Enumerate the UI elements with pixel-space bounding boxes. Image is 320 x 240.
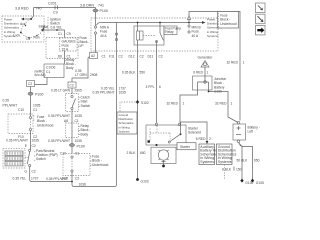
svg-text:0.35 PPL/WHT: 0.35 PPL/WHT (48, 139, 70, 143)
svg-text:0.35 YEL: 0.35 YEL (12, 177, 26, 181)
svg-text:Systems: Systems (218, 160, 232, 164)
svg-text:w/o A6): w/o A6) (35, 73, 46, 77)
svg-text:Lock: Lock (13, 34, 20, 38)
svg-text:C1: C1 (58, 32, 62, 36)
svg-text:50 BLK: 50 BLK (237, 159, 249, 163)
svg-text:3.8 RED: 3.8 RED (15, 7, 29, 11)
svg-text:C1: C1 (102, 55, 106, 59)
svg-text:0.35 PPL/WHT: 0.35 PPL/WHT (46, 177, 68, 181)
svg-text:Systems: Systems (119, 129, 131, 133)
svg-text:650: 650 (140, 151, 146, 155)
svg-text:0.35 BLK: 0.35 BLK (122, 71, 136, 75)
svg-text:740: 740 (36, 7, 42, 11)
svg-text:Solenoid: Solenoid (188, 131, 201, 135)
svg-text:D12: D12 (129, 55, 135, 59)
svg-text:550: 550 (140, 71, 146, 75)
svg-text:C2: C2 (70, 84, 74, 88)
svg-text:2: 2 (209, 137, 211, 141)
svg-text:P100: P100 (35, 93, 43, 97)
svg-text:P100: P100 (77, 144, 85, 148)
svg-text:Switch: Switch (81, 104, 91, 108)
svg-text:1036: 1036 (79, 183, 87, 187)
svg-text:C1/D6: C1/D6 (46, 66, 56, 70)
svg-text:3.8 ORN: 3.8 ORN (80, 4, 94, 8)
svg-text:Systems: Systems (200, 160, 214, 164)
svg-text:32 RED: 32 RED (166, 102, 178, 106)
svg-text:1737: 1737 (31, 177, 39, 181)
svg-text:1035: 1035 (75, 114, 83, 118)
svg-text:1: 1 (243, 61, 245, 65)
svg-text:Starter: Starter (180, 145, 191, 149)
svg-text:A2: A2 (91, 54, 95, 58)
svg-text:Off: Off (26, 37, 30, 41)
svg-text:1: 1 (231, 102, 233, 106)
svg-text:P100: P100 (100, 9, 108, 13)
svg-text:Acc: Acc (20, 22, 26, 26)
svg-text:C201: C201 (48, 2, 57, 6)
svg-text:LT GRN: LT GRN (75, 73, 87, 77)
svg-text:40 A: 40 A (192, 34, 199, 38)
svg-text:32 RED: 32 RED (215, 102, 227, 106)
svg-text:Underhood: Underhood (37, 123, 53, 127)
svg-text:Bat: Bat (43, 25, 48, 29)
svg-text:PPL/WHT: PPL/WHT (3, 104, 18, 108)
svg-text:C2: C2 (32, 169, 36, 173)
svg-text:Body: Body (81, 132, 89, 136)
svg-text:150: 150 (236, 168, 242, 172)
svg-text:C10: C10 (18, 108, 24, 112)
svg-text:0.35: 0.35 (3, 99, 10, 103)
svg-text:Switch: Switch (36, 157, 46, 161)
svg-text:C2: C2 (140, 55, 144, 59)
svg-text:40 A: 40 A (100, 34, 107, 38)
svg-text:F11: F11 (109, 55, 115, 59)
svg-text:C9: C9 (53, 11, 58, 15)
svg-text:0.35 LT GRN: 0.35 LT GRN (51, 89, 71, 93)
svg-text:Underhood: Underhood (92, 163, 108, 167)
svg-text:3 PPL: 3 PPL (146, 85, 155, 89)
svg-text:8 BLK: 8 BLK (222, 168, 232, 172)
svg-text:741: 741 (98, 4, 104, 8)
svg-text:C1: C1 (33, 108, 37, 112)
svg-text:C2: C2 (119, 55, 123, 59)
svg-text:C1: C1 (75, 119, 79, 123)
svg-text:2908: 2908 (90, 73, 98, 77)
svg-text:Relay: Relay (165, 30, 174, 34)
svg-text:0.35 PPL/WHT: 0.35 PPL/WHT (93, 91, 115, 95)
svg-text:C2: C2 (32, 144, 36, 148)
svg-text:C2: C2 (159, 55, 163, 59)
svg-text:C2: C2 (75, 177, 79, 181)
svg-text:Underhood: Underhood (220, 22, 236, 26)
svg-text:15 A: 15 A (62, 48, 69, 52)
svg-text:Body: Body (66, 66, 74, 70)
svg-text:G100: G100 (245, 181, 253, 185)
svg-text:D11: D11 (148, 55, 154, 59)
svg-text:6 RED: 6 RED (193, 71, 203, 75)
svg-text:1035: 1035 (32, 138, 40, 142)
svg-text:2 BLK: 2 BLK (127, 151, 137, 155)
svg-text:6: 6 (159, 85, 161, 89)
svg-text:0.8 YEL: 0.8 YEL (51, 26, 63, 30)
svg-text:1: 1 (207, 71, 209, 75)
svg-text:Systems: Systems (207, 34, 219, 38)
svg-text:1035: 1035 (119, 91, 127, 95)
svg-text:S102: S102 (141, 101, 149, 105)
svg-text:Generator: Generator (198, 56, 214, 60)
svg-text:C2: C2 (28, 82, 32, 86)
svg-text:G105: G105 (256, 181, 264, 185)
svg-text:1035: 1035 (33, 104, 41, 108)
svg-text:1035: 1035 (75, 139, 83, 143)
svg-text:650: 650 (254, 159, 260, 163)
svg-text:0.35 PPL/WHT: 0.35 PPL/WHT (6, 138, 28, 142)
svg-text:D6: D6 (58, 55, 62, 59)
svg-text:1: 1 (183, 102, 185, 106)
svg-text:32 RED: 32 RED (226, 61, 238, 65)
svg-text:0.35 PPL/WHT: 0.35 PPL/WHT (48, 114, 70, 118)
svg-text:5 RED: 5 RED (196, 137, 206, 141)
svg-text:C1: C1 (46, 70, 50, 74)
svg-text:G: G (24, 169, 27, 173)
svg-text:C9: C9 (67, 32, 71, 36)
svg-text:G103: G103 (141, 180, 149, 184)
svg-text:Left: Left (248, 130, 254, 134)
svg-text:2905: 2905 (75, 89, 83, 93)
svg-text:Run: Run (34, 36, 40, 40)
svg-text:A6: A6 (64, 119, 68, 123)
